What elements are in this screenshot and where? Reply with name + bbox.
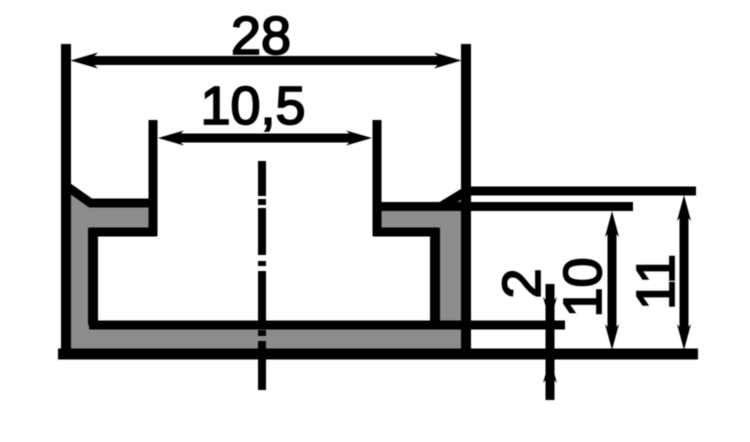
right top chamfer — [440, 190, 468, 207]
dimension 2 upper outside arrow — [543, 297, 557, 321]
svg-text:11: 11 — [626, 254, 686, 310]
dimension 10,5 line — [175, 134, 355, 143]
top deck surface + 10 extension line — [377, 202, 633, 211]
dimension 10,5 left arrow — [158, 131, 184, 146]
left arm underside — [89, 228, 157, 237]
cavity floor + 2 extension line — [89, 321, 565, 330]
dimension 11 top arrow — [677, 195, 691, 221]
dimension 10 bottom arrow — [605, 324, 619, 350]
right cavity inner face — [430, 228, 440, 325]
dimension 11 bottom arrow — [677, 324, 691, 350]
dimension 2 lower outside arrow — [543, 359, 557, 383]
right arm underside — [373, 228, 439, 237]
dimension 28 left arrow — [71, 53, 99, 69]
dimension 10 top arrow — [605, 211, 619, 237]
dimension 2 line — [546, 284, 555, 400]
bottom outer edge + extension to right — [58, 349, 698, 360]
dimension 11 line — [680, 212, 689, 333]
svg-text:10,5: 10,5 — [200, 76, 305, 136]
left wall outer edge + 28 extension line — [61, 44, 71, 354]
left lip top surface — [89, 199, 153, 208]
dimension 10,5 right arrow — [346, 131, 372, 146]
svg-text:10: 10 — [553, 257, 613, 317]
right slot lip edge + 10,5 extension line — [373, 120, 382, 236]
left top chamfer — [65, 185, 92, 204]
right wall outer edge + 28 extension line — [461, 44, 471, 354]
dimension 10 line — [608, 228, 617, 333]
svg-text:2: 2 — [492, 268, 552, 298]
vertical centerline dash-dot — [258, 161, 266, 390]
left cavity inner face — [88, 228, 98, 325]
profile cross-section gray body — [66, 188, 466, 354]
svg-text:28: 28 — [231, 6, 291, 66]
left slot lip edge + 10,5 extension line — [149, 120, 158, 236]
dimension 28 right arrow — [434, 53, 462, 69]
11 extension line at right wall top — [462, 187, 696, 196]
dimension 28 line — [89, 56, 443, 65]
